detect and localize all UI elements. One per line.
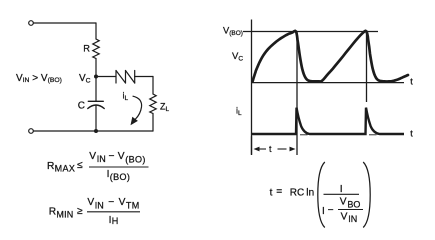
svg-text:V: V xyxy=(341,212,348,223)
svg-text:IN: IN xyxy=(95,201,104,211)
svg-text:≤: ≤ xyxy=(77,160,83,171)
svg-text:V: V xyxy=(340,197,347,208)
svg-text:(BO): (BO) xyxy=(110,172,131,182)
svg-text:MAX: MAX xyxy=(55,164,76,174)
svg-text:ln: ln xyxy=(306,188,314,199)
svg-text:IN: IN xyxy=(348,214,357,224)
svg-text:V: V xyxy=(119,197,126,208)
svg-text:−: − xyxy=(328,205,334,216)
svg-text:−: − xyxy=(108,197,114,208)
svg-text:V: V xyxy=(118,151,125,162)
svg-text:V: V xyxy=(87,197,94,208)
svg-text:H: H xyxy=(112,216,119,226)
svg-text:R: R xyxy=(83,43,90,53)
svg-text:TM: TM xyxy=(126,201,140,211)
svg-text:RC: RC xyxy=(290,188,304,199)
svg-text:R: R xyxy=(47,161,54,172)
svg-text:≥: ≥ xyxy=(77,206,83,217)
svg-text:t: t xyxy=(270,188,273,199)
svg-text:MIN: MIN xyxy=(56,209,73,219)
svg-text:C: C xyxy=(78,101,85,112)
svg-text:I: I xyxy=(340,184,343,195)
svg-text:V: V xyxy=(89,151,96,162)
svg-text:I: I xyxy=(322,206,325,217)
svg-text:R: R xyxy=(49,207,56,218)
svg-text:−: − xyxy=(109,151,115,162)
svg-text:IN: IN xyxy=(97,154,106,164)
svg-text:=: = xyxy=(276,187,282,198)
svg-text:(BO): (BO) xyxy=(125,155,146,165)
svg-text:BO: BO xyxy=(347,200,360,210)
